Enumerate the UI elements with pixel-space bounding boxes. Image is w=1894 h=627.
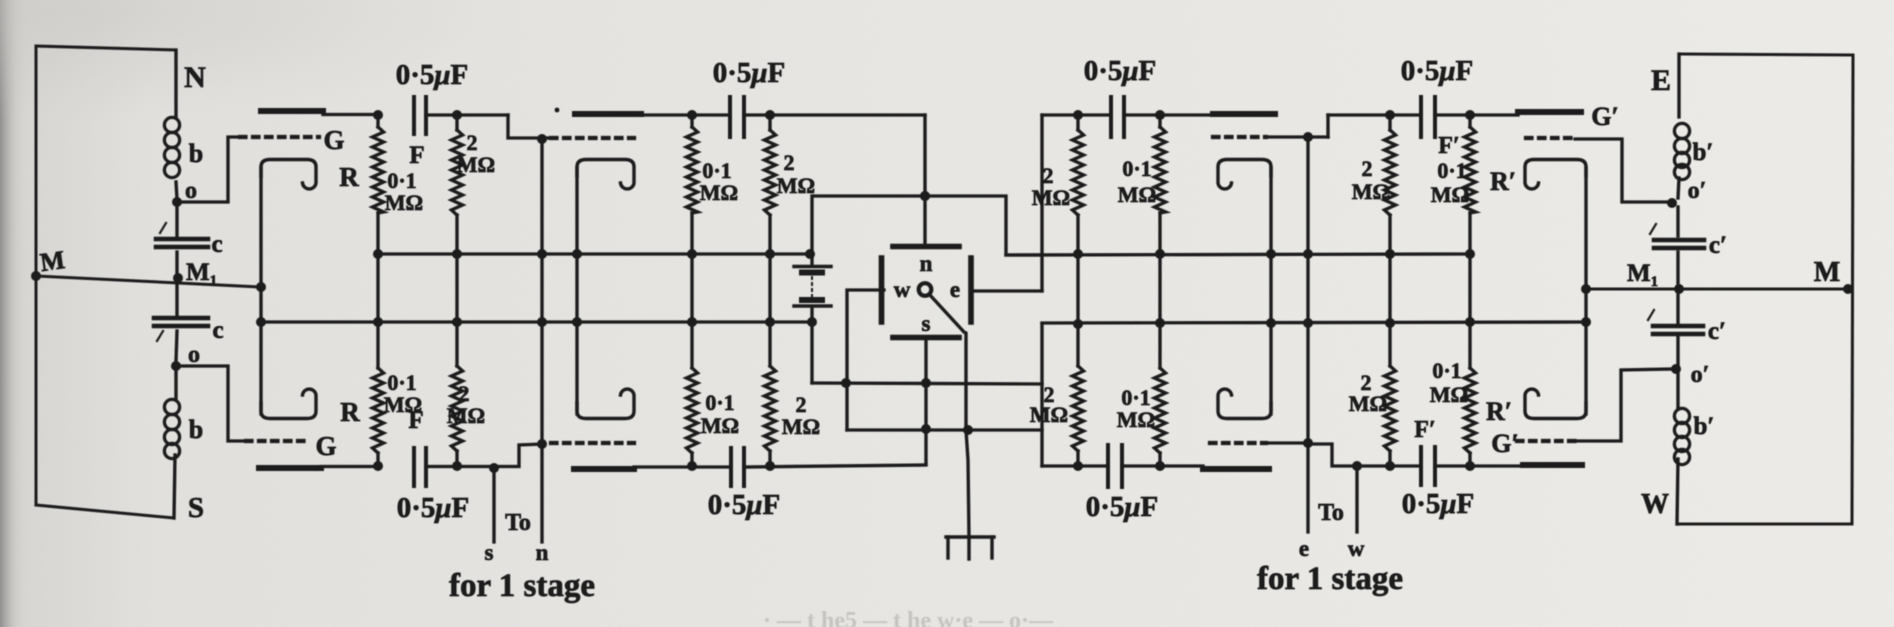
bottom rail stage1 <box>426 465 494 468</box>
svg-text:e: e <box>950 277 960 302</box>
label N <box>184 61 206 94</box>
svg-text:w: w <box>1348 536 1365 561</box>
switch contact n bar <box>893 244 959 250</box>
svg-text:0·5μF: 0·5μF <box>1084 55 1157 87</box>
triode V4 filament <box>1525 160 1586 189</box>
svg-text:MΩ: MΩ <box>1117 407 1155 432</box>
svg-text:0·5μF: 0·5μF <box>1401 55 1474 87</box>
label M right <box>1814 257 1840 288</box>
wire o-prime to grid V4 <box>1575 139 1672 202</box>
triode V1 filament <box>261 160 316 189</box>
svg-text:E: E <box>1651 64 1671 97</box>
label 0.5uF stage3 top <box>1084 55 1157 87</box>
capacitor 0.5uF stage4 bottom <box>1421 447 1435 485</box>
svg-text:c: c <box>211 231 222 258</box>
label o-prime lower right <box>1691 362 1710 388</box>
svg-text:0·1: 0·1 <box>1437 158 1466 183</box>
label o upper left <box>185 178 197 204</box>
label G-prime V4b <box>1491 429 1519 458</box>
resistor 0.1 Mohm stage3 column <box>1154 110 1165 471</box>
svg-text:o′: o′ <box>1691 362 1710 388</box>
triode V1 grid dashed <box>240 135 319 139</box>
wire e contact <box>974 289 1042 292</box>
terminal e lead <box>0 0 2 2</box>
switch n feed column <box>920 115 930 244</box>
svg-text:n: n <box>536 540 549 565</box>
svg-text:F: F <box>409 142 424 169</box>
svg-text:b: b <box>189 139 203 168</box>
svg-text:0·1: 0·1 <box>1122 156 1151 181</box>
capacitor c lower left <box>154 318 208 341</box>
label 0.5uF stage4 top <box>1401 55 1474 87</box>
wire top rail stage4b <box>1435 113 1518 116</box>
triode V2 plate bar <box>575 114 692 115</box>
svg-text:0·5μF: 0·5μF <box>708 489 781 521</box>
earth lead <box>966 430 969 537</box>
svg-text:S: S <box>188 492 204 524</box>
svg-text:F′: F′ <box>1438 133 1459 159</box>
triode V2b filament <box>577 389 634 418</box>
triode V3b filament <box>1218 389 1271 418</box>
triode V3b grid dashed <box>1210 441 1308 445</box>
svg-text:G′: G′ <box>1591 102 1619 131</box>
label c upper left <box>211 231 222 258</box>
resistor 0.1 Mohm stage2 column <box>686 110 697 471</box>
svg-text:MΩ: MΩ <box>1430 382 1468 407</box>
wire y430 line <box>847 425 1042 435</box>
node grid junction stage2 <box>537 134 547 144</box>
label M1 right <box>1627 260 1658 290</box>
triode V4 plate bar <box>1518 109 1581 115</box>
filament column V1 vertical <box>256 168 266 414</box>
coil b-prime upper right <box>1674 123 1689 179</box>
label c lower left <box>212 317 223 344</box>
label R-prime stage4 top <box>1490 167 1516 196</box>
svg-text:0·5μF: 0·5μF <box>713 57 786 89</box>
label 0.1 Mohm stage3 bottom <box>1117 385 1155 432</box>
label n terminal <box>536 540 549 565</box>
svg-text:n: n <box>920 251 933 276</box>
label 2 Mohm stage3 bottom <box>1030 382 1068 427</box>
svg-text:R′: R′ <box>1490 167 1516 196</box>
svg-text:c: c <box>212 317 223 344</box>
svg-text:b′: b′ <box>1694 413 1715 440</box>
label E <box>1651 64 1671 97</box>
faint caption remnant <box>763 608 1067 627</box>
wire o to grid V1 <box>178 137 240 202</box>
label o lower left <box>188 342 200 368</box>
main column right of switch <box>1040 115 1043 466</box>
svg-text:o′: o′ <box>1688 178 1707 204</box>
filament column V4 vertical <box>1581 168 1591 414</box>
label 2 Mohm stage3 top <box>1032 163 1070 210</box>
label R V1b <box>340 397 360 427</box>
wire top rail stage3 <box>1124 113 1213 116</box>
filament column V2 vertical <box>572 168 582 414</box>
label M far left <box>38 245 66 277</box>
galvanometer M left block outline <box>36 46 177 518</box>
capacitor c upper left <box>156 223 208 247</box>
label S <box>188 492 204 524</box>
wire w contact <box>841 290 884 430</box>
earth symbol <box>946 537 994 559</box>
wire o-prime to grid V4b <box>1577 369 1674 441</box>
svg-text:s: s <box>485 540 494 565</box>
label R V1 <box>339 162 359 192</box>
bottom rail right of switch <box>1042 464 1108 467</box>
label 0.1 Mohm stage4 top <box>1431 158 1469 207</box>
svg-text:MΩ: MΩ <box>1032 185 1070 210</box>
label 0.5uF stage3 bottom <box>1086 491 1159 523</box>
battery bias column <box>794 196 831 383</box>
triode V1b plate bar <box>259 467 378 469</box>
label R-prime stage4 bottom <box>1486 397 1512 426</box>
svg-text:N: N <box>184 61 206 94</box>
svg-text:MΩ: MΩ <box>1349 391 1387 416</box>
triode V1b grid dashed <box>246 439 308 443</box>
svg-text:F′: F′ <box>1414 417 1435 443</box>
node o upper left <box>172 197 182 207</box>
wire y196 line <box>813 191 1042 255</box>
label 0.5uF stage4 bottom <box>1402 488 1475 520</box>
capacitor c-prime lower right <box>1648 310 1703 334</box>
svg-text:o: o <box>185 178 197 204</box>
label G V1b <box>315 431 336 461</box>
wire top rail to switch corner <box>744 113 925 116</box>
label s switch <box>922 311 931 336</box>
svg-text:MΩ: MΩ <box>701 413 739 438</box>
label for 1 stage right <box>1257 561 1403 597</box>
switch lever <box>929 294 966 430</box>
triode V3 grid dashed <box>1213 135 1328 139</box>
svg-text:To: To <box>505 510 531 536</box>
rail A left <box>378 252 812 255</box>
svg-text:MΩ: MΩ <box>447 403 485 428</box>
label 2 Mohm stage4 bottom <box>1349 370 1387 416</box>
label 0.1 Mohm stage3 top <box>1118 156 1156 207</box>
grid column stage3 vertical <box>1303 132 1313 532</box>
capacitor 0.5uF stage3 top <box>1111 97 1124 137</box>
svg-text:w: w <box>894 277 911 302</box>
step up stage4 <box>1326 115 1329 137</box>
switch pivot ring <box>919 283 932 296</box>
svg-text:F: F <box>408 407 423 434</box>
top rail right of switch <box>1042 113 1111 116</box>
svg-text:0·1: 0·1 <box>1432 358 1461 383</box>
filament column V3 vertical <box>1266 168 1276 414</box>
svg-text:0·5μF: 0·5μF <box>1086 491 1159 523</box>
svg-text:R: R <box>340 397 360 427</box>
svg-text:G′: G′ <box>1491 429 1519 458</box>
label W <box>1641 489 1669 520</box>
node M1 left <box>173 273 183 283</box>
wire top rail stage2 <box>692 113 730 116</box>
svg-text:o: o <box>188 342 200 368</box>
svg-text:G: G <box>315 431 336 461</box>
svg-text:MΩ: MΩ <box>700 180 738 205</box>
svg-text:M: M <box>38 245 66 277</box>
s feed column <box>921 341 931 464</box>
switch contact e bar <box>968 258 974 322</box>
bottom rail stage2 <box>692 465 926 467</box>
label F-prime stage4 bottom <box>1414 417 1435 443</box>
terminal w lead <box>1352 461 1362 532</box>
svg-text:2: 2 <box>784 150 795 175</box>
capacitor 0.5uF stage1 bottom <box>414 448 426 486</box>
triode V1b filament <box>261 389 316 418</box>
label 0.5uF stage1 top <box>396 59 469 91</box>
galvanometer block right outline <box>1677 54 1853 524</box>
resistor R 0.1 Mohm stage1 top/bottom column <box>372 110 383 471</box>
svg-text:c′: c′ <box>1708 318 1726 345</box>
capacitor 0.5uF stage4 top <box>1421 97 1435 137</box>
capacitor c-prime upper right <box>1650 224 1704 248</box>
label F-prime stage4 top <box>1438 133 1459 159</box>
svg-text:c′: c′ <box>1709 232 1727 259</box>
wire M1 line left with end node <box>31 271 266 292</box>
svg-text:MΩ: MΩ <box>1118 182 1156 207</box>
triode V2b grid dashed <box>551 441 634 445</box>
triode V4b plate bar <box>1523 462 1582 468</box>
rail B left <box>261 320 814 323</box>
wire top rail stage4 <box>1328 113 1421 116</box>
label b-prime upper right <box>1693 139 1714 166</box>
svg-text:0·5μF: 0·5μF <box>397 492 470 524</box>
label 0.1 Mohm stage2 top <box>700 158 738 205</box>
svg-text:0·5μF: 0·5μF <box>1402 488 1475 520</box>
label 0.1 Mohm stage1 bottom <box>384 370 422 417</box>
resistor 2 Mohm stage3 column <box>1072 110 1083 471</box>
svg-text:MΩ: MΩ <box>1352 179 1390 204</box>
label To right <box>1318 500 1344 526</box>
bottom rail stage4b <box>1435 464 1523 467</box>
triode V2 filament <box>577 160 634 189</box>
capacitor 0.5uF stage3 bottom <box>1108 445 1122 487</box>
node M1 right <box>1674 284 1684 294</box>
rail A right <box>1006 254 1470 255</box>
switch contact w bar <box>879 258 885 322</box>
label F stage1 bottom <box>408 407 423 434</box>
label b lower left <box>189 415 203 444</box>
grid column stage2 vertical <box>537 138 547 542</box>
svg-text:s: s <box>922 311 931 336</box>
coil b upper left <box>164 117 179 177</box>
svg-text:· — t he5 — t he w·e — o·: · — t he5 — t he w·e — o·— ¸ <box>763 608 1067 627</box>
svg-text:e: e <box>1299 536 1309 561</box>
svg-text:R′: R′ <box>1486 397 1512 426</box>
node o-prime lower right <box>1671 364 1681 374</box>
label 2 Mohm stage1 top <box>457 130 495 177</box>
label M1 left <box>186 259 217 289</box>
resistor 0.1 Mohm R-prime stage4 column <box>1464 110 1475 471</box>
resistor 2 Mohm stage1 column <box>451 110 462 471</box>
label b upper left <box>189 139 203 168</box>
triode V4 grid dashed <box>1526 136 1575 140</box>
capacitor F 0.5uF stage1 top <box>414 97 426 134</box>
capacitor 0.5uF stage2 bottom <box>731 448 744 486</box>
label e terminal <box>1299 536 1309 561</box>
svg-text:b′: b′ <box>1693 139 1714 166</box>
resistor 2 Mohm stage4 column <box>1384 110 1395 471</box>
label s terminal <box>485 540 494 565</box>
label 0.5uF stage2 bottom <box>708 489 781 521</box>
label c-prime lower right <box>1708 318 1726 345</box>
wire M1 line right <box>1581 284 1853 294</box>
triode V4b filament <box>1525 389 1586 418</box>
triode V3b plate bar <box>1203 466 1269 472</box>
coil b lower left <box>164 399 179 458</box>
bottom rail step to grid junction <box>494 444 543 467</box>
label 0.5uF stage2 top <box>713 57 786 89</box>
bottom rail step right <box>1308 444 1357 466</box>
triode V3 filament <box>1218 160 1271 189</box>
switch contact s bar <box>893 335 959 341</box>
label o-prime upper right <box>1688 178 1707 204</box>
node o-prime upper right <box>1667 198 1677 208</box>
label b-prime lower right <box>1694 413 1715 440</box>
label w terminal <box>1348 536 1365 561</box>
triode V3 plate bar <box>1213 111 1275 117</box>
svg-text:MΩ: MΩ <box>1030 402 1068 427</box>
label c-prime upper right <box>1709 232 1727 259</box>
label To left <box>505 510 531 536</box>
svg-text:b: b <box>189 415 203 444</box>
capacitor 0.5uF stage2 top <box>730 97 744 137</box>
label 0.1 Mohm stage1 top <box>385 168 423 215</box>
label 0.1 Mohm stage4 bottom <box>1430 358 1468 407</box>
svg-text:MΩ: MΩ <box>457 152 495 177</box>
svg-text:0·5μF: 0·5μF <box>396 59 469 91</box>
triode V1 plate bar <box>261 111 378 115</box>
rail B right <box>1042 322 1586 323</box>
wire y383 line <box>812 383 1042 384</box>
svg-text:MΩ: MΩ <box>782 414 820 439</box>
resistor 2 Mohm stage2 column <box>764 110 775 471</box>
svg-text:M: M <box>1814 257 1840 288</box>
label 2 Mohm stage4 top <box>1352 156 1390 204</box>
coil b-prime lower right <box>1674 408 1689 464</box>
label 2 Mohm stage1 bottom <box>447 381 485 428</box>
wire top rail stage1 <box>426 115 551 138</box>
svg-text:R: R <box>339 162 359 192</box>
svg-text:To: To <box>1318 500 1344 526</box>
label n switch <box>920 251 933 276</box>
svg-text:0·1: 0·1 <box>705 390 734 415</box>
svg-text:for 1 stage: for 1 stage <box>1257 561 1403 597</box>
svg-text:MΩ: MΩ <box>777 173 815 198</box>
node o lower left <box>171 361 181 371</box>
label 2 Mohm stage2 top <box>777 150 815 198</box>
svg-text:MΩ: MΩ <box>1431 182 1469 207</box>
label G-prime V4 <box>1591 102 1619 131</box>
svg-text:2: 2 <box>1362 156 1373 181</box>
label F stage1 top <box>409 142 424 169</box>
label for 1 stage left <box>449 568 595 604</box>
bottom rail stage3 <box>1122 464 1203 467</box>
label e switch <box>950 277 960 302</box>
triode V4b grid dashed <box>1517 439 1577 443</box>
triode V2b plate bar <box>574 467 692 469</box>
wire o to grid V1b <box>177 366 246 441</box>
terminal s lead <box>489 463 499 542</box>
speck <box>555 108 560 113</box>
label w switch <box>894 277 911 302</box>
svg-text:W: W <box>1641 489 1669 520</box>
bottom rail stage4 <box>1357 464 1421 467</box>
label 2 Mohm stage2 bottom <box>782 392 820 439</box>
triode V2 grid dashed <box>551 136 634 140</box>
svg-text:for 1 stage: for 1 stage <box>449 568 595 604</box>
label 0.5uF stage1 bottom <box>397 492 470 524</box>
svg-text:MΩ: MΩ <box>385 190 423 215</box>
label G V1 <box>323 125 344 155</box>
label 0.1 Mohm stage2 bottom <box>701 390 739 438</box>
svg-text:G: G <box>323 125 344 155</box>
